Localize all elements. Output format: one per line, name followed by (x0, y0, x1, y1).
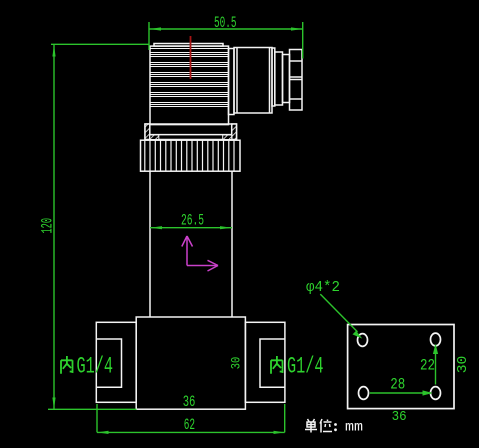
svg-text:22: 22 (420, 356, 435, 374)
svg-text:36: 36 (183, 393, 196, 411)
svg-text:50.5: 50.5 (214, 14, 237, 32)
svg-text:G1/4: G1/4 (77, 354, 114, 380)
svg-text:28: 28 (390, 375, 405, 393)
svg-text:26.5: 26.5 (181, 212, 204, 230)
svg-text:36: 36 (392, 409, 407, 425)
svg-text:30: 30 (229, 357, 244, 370)
svg-text:φ4*2: φ4*2 (306, 279, 340, 296)
svg-text:30: 30 (455, 356, 471, 374)
svg-text:120: 120 (39, 218, 57, 234)
svg-text:G1/4: G1/4 (287, 354, 324, 380)
svg-text:mm: mm (345, 420, 363, 436)
svg-text:62: 62 (184, 416, 195, 434)
